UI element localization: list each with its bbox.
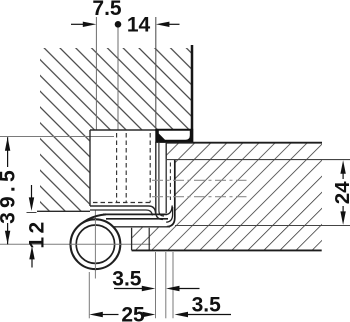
dimension 24 (340, 160, 345, 174)
frame wall section hatch (40, 48, 192, 211)
leaf curl (75, 214, 107, 231)
dimension node dot (115, 21, 122, 28)
door top edge (166, 142, 322, 144)
svg-text:24: 24 (331, 181, 350, 204)
door notch back corner (167, 160, 175, 227)
screw axis centerline 1 (152, 179, 247, 181)
cup left edge (89, 130, 91, 206)
hidden screw dashed in notch (169, 163, 171, 201)
dimension 25 (89, 312, 103, 317)
hidden screw hole dashed lines in cup (116, 133, 118, 203)
dimension 14 arrow (156, 22, 170, 27)
dimension 7.5 arrow (71, 23, 84, 25)
extension line x=155.8 top (155, 17, 157, 129)
hinge leaf bar (103, 213, 167, 215)
door bottom edge (132, 249, 322, 251)
bottom extension lines (88, 272, 90, 318)
centerline horizontal through knuckle (0, 243, 151, 245)
axis line x=118 from dot (117, 28, 119, 131)
leaf rounded end (167, 206, 172, 215)
door step verticals (131, 228, 133, 251)
door panel section hatch (132, 143, 322, 251)
door flap plane line (175, 225, 350, 227)
svg-text:14: 14 (127, 14, 151, 37)
svg-text:3.5: 3.5 (112, 267, 142, 290)
svg-text:12: 12 (26, 218, 49, 248)
svg-text:7.5: 7.5 (92, 0, 122, 20)
knuckle outer circle (71, 219, 121, 269)
dimension 12 (31, 185, 33, 199)
crosshair inside knuckle (70, 243, 121, 245)
door leaf mortise top line across door (166, 159, 350, 161)
door face (165, 143, 167, 160)
centerline vertical through knuckle (94, 210, 96, 279)
svg-text:39.5: 39.5 (0, 166, 19, 224)
extension line x=96.5 (7.5 left) (95, 17, 97, 130)
frame seal lip black (155, 129, 193, 143)
cup top edge (90, 129, 156, 131)
door step face (112, 226, 170, 228)
svg-text:25: 25 (121, 304, 145, 322)
dimension 39.5 (7, 137, 9, 167)
frame rebate face (37, 210, 90, 212)
svg-text:3.5: 3.5 (192, 294, 222, 317)
screw axis centerline 2 (152, 196, 247, 198)
frame lip face double line (156, 142, 163, 220)
knuckle inner circle (76, 225, 114, 263)
extension line y=136.5 (39.5 top ref) (0, 136, 114, 138)
cup bottom double line (90, 206, 156, 214)
frame right edge thick (191, 45, 194, 143)
